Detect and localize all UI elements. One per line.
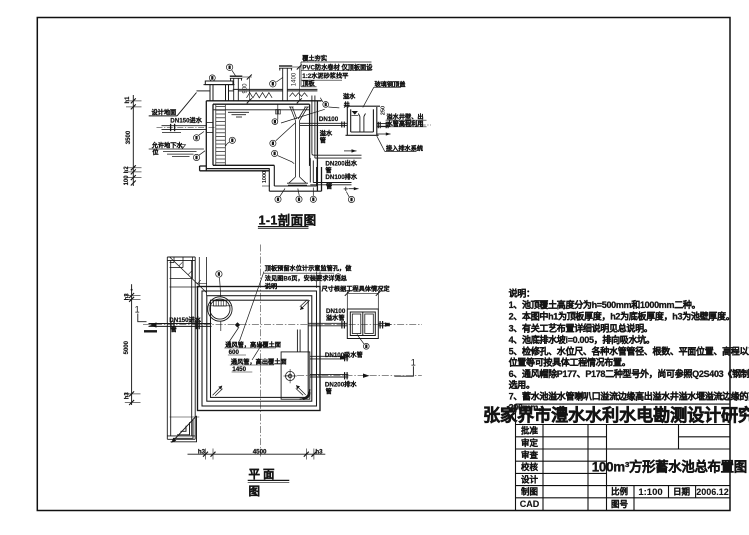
svg-text:日期: 日期: [673, 487, 691, 497]
left channel strip walls: [167, 257, 195, 439]
svg-text:DN200出水: DN200出水: [325, 160, 357, 168]
label circle 1 (manhole): [209, 75, 215, 81]
svg-text:选用。: 选用。: [509, 379, 535, 390]
plan bottom dimension line: [188, 449, 326, 460]
ground cover lines: [197, 89, 318, 91]
leader from text block: [240, 272, 265, 342]
svg-text:PVC防水卷材 仅顶板面设: PVC防水卷材 仅顶板面设: [302, 63, 373, 71]
vent pipe A: [230, 76, 243, 101]
svg-text:1:2水泥砂浆找平: 1:2水泥砂浆找平: [302, 72, 349, 80]
label circle 1 plan + leader: [216, 271, 222, 297]
svg-text:井: 井: [344, 101, 350, 109]
svg-text:100m³方形蓄水池总布置图: 100m³方形蓄水池总布置图: [592, 458, 747, 474]
svg-text:溢水管: 溢水管: [326, 314, 345, 322]
svg-text:说明：: 说明：: [509, 288, 535, 299]
plan centerlines: [143, 324, 422, 326]
svg-text:DN200排水: DN200排水: [325, 380, 357, 388]
svg-text:h1: h1: [125, 96, 131, 104]
section dimension labels h1 3500 h2 100: [124, 96, 132, 186]
water level line in tank: [213, 110, 310, 117]
arrow below well: [377, 132, 391, 135]
drain pipe (plan): [310, 372, 349, 379]
svg-text:通风管，高出覆土面: 通风管，高出覆土面: [231, 358, 287, 366]
label circle 4 + leader: [272, 150, 295, 163]
plan dim labels h3 5000 h3: [124, 293, 130, 400]
svg-text:1-1剖面图: 1-1剖面图: [259, 213, 317, 228]
svg-text:1:100: 1:100: [638, 487, 662, 498]
tank wall rectangles: [198, 287, 321, 411]
drain drop pipe + DN100 drain: [310, 158, 351, 185]
overflow funnel in tank: [289, 107, 309, 121]
bell mouth at sump: [287, 177, 308, 185]
overflow well (section): [345, 106, 381, 135]
svg-text:1400: 1400: [292, 72, 298, 86]
svg-text:7、蓄水池溢水管喇叭口溢流边缘高出溢水井溢水堰溢流边缘的高度: 7、蓄水池溢水管喇叭口溢流边缘高出溢水井溢水堰溢流边缘的高度≥: [509, 391, 749, 402]
floor slope corner marks: [213, 300, 310, 396]
svg-text:张家界市澧水水利水电勘测设计研究院: 张家界市澧水水利水电勘测设计研究院: [483, 405, 749, 425]
corner extension lines: [317, 272, 321, 289]
svg-text:管: 管: [326, 183, 332, 191]
svg-text:通风管，高出覆土面: 通风管，高出覆土面: [225, 341, 281, 349]
svg-text:100: 100: [124, 175, 130, 186]
svg-text:说明: 说明: [265, 283, 277, 291]
svg-text:顶板预留水位计示意监管孔，做: 顶板预留水位计示意监管孔，做: [265, 264, 352, 272]
label circle 6 + leader: [193, 132, 204, 141]
svg-text:DN100吸水管: DN100吸水管: [325, 351, 363, 359]
svg-text:h3: h3: [124, 293, 130, 301]
section dimension column line: [126, 95, 142, 186]
tank left wall: [206, 101, 213, 171]
water gauge (7): [276, 104, 281, 119]
bell mouth (plan): [284, 369, 297, 383]
svg-text:审查: 审查: [521, 450, 539, 460]
overflow well (plan): [347, 309, 378, 339]
vent labels in plan: [225, 341, 286, 373]
svg-text:CAD: CAD: [520, 499, 540, 509]
labels DN100溢水管: [326, 308, 346, 322]
tank floor and base: [200, 165, 275, 171]
svg-text:溢水井壁、出: 溢水井壁、出: [387, 113, 424, 121]
plan top text block: [265, 264, 352, 290]
svg-text:2、本图中h1为顶板厚度，h2为底板厚度，h3为池壁厚度。: 2、本图中h1为顶板厚度，h2为底板厚度，h3为池壁厚度。: [509, 311, 735, 322]
svg-text:1、池顶覆土高度分为h=500mm和1000mm二种。: 1、池顶覆土高度分为h=500mm和1000mm二种。: [509, 299, 701, 310]
plan left dimension line: [125, 284, 141, 405]
svg-text:1: 1: [411, 357, 416, 367]
suction pipe (plan): [310, 354, 349, 361]
tank right wall: [310, 101, 322, 191]
svg-text:溢水: 溢水: [320, 130, 333, 138]
tank top slab: [206, 101, 321, 104]
bottom corner steps: [170, 416, 200, 443]
design ground label 设计地面: [149, 93, 197, 117]
svg-text:制图: 制图: [521, 487, 538, 497]
label circle 9 (vent B) + leader: [270, 78, 283, 88]
notes 说明 text block: [509, 288, 749, 413]
svg-text:审定: 审定: [521, 438, 539, 448]
svg-text:DN150进水: DN150进水: [170, 117, 202, 125]
label circle 2 (vent A) + leader: [226, 64, 235, 76]
svg-text:3500: 3500: [126, 130, 132, 144]
label circle 15 + leader: [320, 98, 339, 108]
svg-text:位: 位: [152, 148, 159, 156]
well outlet pipe right: [377, 122, 391, 128]
flow arrow DN200: [344, 149, 357, 152]
dim 900 for vent A: [242, 75, 252, 104]
svg-text:设计: 设计: [521, 474, 539, 484]
svg-text:h3: h3: [315, 448, 323, 455]
vent symbols on centerline: [235, 322, 240, 327]
svg-text:平面: 平面: [249, 468, 278, 481]
svg-text:5、检修孔、水位尺、各种水管管径、根数、平面位置、高程以及吸: 5、检修孔、水位尺、各种水管管径、根数、平面位置、高程以及吸水坑: [509, 346, 749, 357]
drain valve + arrow: [344, 187, 359, 191]
ladder (section): [216, 105, 226, 166]
svg-text:h3: h3: [198, 448, 206, 455]
title block grid: [516, 404, 731, 510]
overflow pipe to well H1: [300, 122, 348, 128]
svg-text:900: 900: [243, 83, 249, 94]
svg-text:图: 图: [249, 484, 261, 498]
svg-text:2006.12: 2006.12: [696, 487, 729, 497]
svg-text:DN100排水: DN100排水: [325, 173, 357, 181]
svg-text:校核: 校核: [521, 462, 539, 472]
label 溢水井 left of well: [343, 93, 356, 110]
svg-text:设计地面: 设计地面: [152, 109, 177, 117]
well water mark: [352, 111, 359, 115]
section flag 1 left: [135, 305, 157, 332]
svg-text:1000: 1000: [262, 171, 268, 183]
label circle number marks: [195, 66, 367, 349]
vent pipe B: [279, 66, 292, 101]
well inner pipe: [358, 114, 365, 133]
svg-text:1: 1: [135, 305, 140, 315]
embedded pipe V2 + DN200 outlet: [312, 96, 362, 159]
svg-text:比例: 比例: [611, 487, 629, 497]
svg-text:3、有关工艺布置详细说明见总说明。: 3、有关工艺布置详细说明见总说明。: [509, 322, 653, 333]
earth hatch zigzag: [247, 93, 273, 98]
svg-text:管: 管: [326, 387, 332, 395]
funnel drop pipe V1: [295, 121, 299, 178]
label circle 8 (ladder) + leader: [226, 137, 236, 146]
labels right of well: [387, 113, 424, 128]
overflow pipe to well (plan): [308, 321, 390, 329]
svg-text:覆土夯实: 覆土夯实: [302, 55, 327, 63]
svg-text:批准: 批准: [521, 426, 539, 436]
dim 1400 for vent B: [292, 65, 302, 104]
svg-text:4、池底排水坡i=0.005，排向吸水坑。: 4、池底排水坡i=0.005，排向吸水坑。: [509, 334, 655, 345]
sump (plan): [281, 352, 310, 399]
svg-text:5000: 5000: [124, 340, 130, 354]
gauge hole leader below manhole: [220, 321, 222, 331]
V1 riser (plan): [297, 330, 300, 352]
svg-text:h3: h3: [124, 392, 130, 400]
section flag 1 right: [394, 357, 415, 376]
manhole circles (plan): [208, 297, 232, 321]
svg-text:位置等可按具体工程情况布置。: 位置等可按具体工程情况布置。: [509, 357, 631, 368]
label circle 12 + leader: [357, 335, 369, 350]
svg-text:图号: 图号: [611, 499, 629, 509]
svg-text:6、通风帽除P177、P178二种型号外，尚可参照Q2S40: 6、通风帽除P177、P178二种型号外，尚可参照Q2S403《钢制管件》: [509, 368, 749, 379]
svg-text:溢水: 溢水: [343, 93, 356, 101]
groundwater level 允许地下水位: [151, 142, 184, 157]
sump pit (section): [269, 165, 321, 191]
title block row labels: [520, 426, 540, 509]
PVC text block with leader underlines: [302, 55, 373, 88]
svg-text:管: 管: [320, 137, 326, 145]
label circle 5 + leader: [193, 151, 205, 161]
centerline out of well: [389, 124, 432, 126]
DN150 inlet (plan): [169, 316, 201, 334]
label circle 13 + leader to funnel: [270, 123, 296, 147]
manhole cover (section): [204, 81, 235, 101]
scale/date row: [611, 487, 729, 509]
svg-text:4500: 4500: [253, 448, 267, 455]
sump label circles 10 11 13 14: [275, 188, 355, 203]
top corner hatch structure: [170, 257, 207, 296]
svg-text:顶板: 顶板: [302, 80, 315, 88]
svg-text:DN100: DN100: [319, 116, 339, 123]
svg-text:h2: h2: [124, 166, 130, 174]
svg-text:DN100: DN100: [326, 308, 346, 315]
